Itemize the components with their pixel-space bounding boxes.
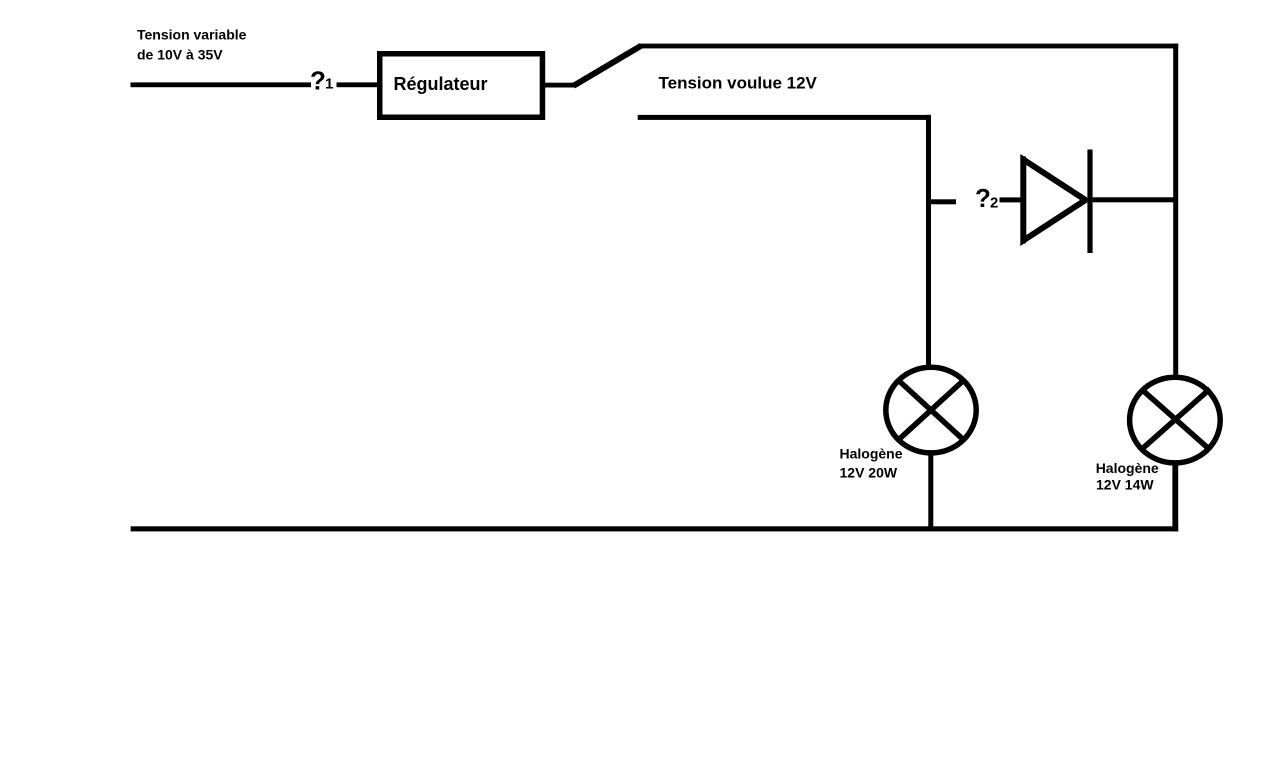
svg-text:?: ? [975, 183, 991, 213]
wire: lamp 1 to bottom rail [928, 452, 933, 531]
component ?1 (unknown component 1) [310, 66, 333, 96]
wire: diode cathode to right rail [1093, 197, 1174, 202]
wire: bottom rail [131, 526, 1179, 531]
svg-text:Régulateur: Régulateur [394, 74, 488, 94]
svg-text:12V 14W: 12V 14W [1096, 476, 1154, 492]
svg-text:Tension voulue 12V: Tension voulue 12V [659, 73, 818, 92]
wire: diagonal riser to top rail [574, 46, 642, 86]
label: Halogène 12V 20W [840, 446, 903, 481]
svg-text:Halogène: Halogène [840, 446, 903, 462]
svg-text:Tension variable: Tension variable [137, 27, 247, 43]
svg-text:de 10V à 35V: de 10V à 35V [137, 47, 223, 63]
component ?2 (unknown component 2) [975, 183, 998, 213]
wire: top rail [639, 44, 1179, 49]
regulator box U1 [377, 51, 545, 120]
wire: input wire left segment [131, 82, 312, 87]
svg-text:1: 1 [325, 76, 333, 93]
wire: branch vertical down to lamp 1 [926, 115, 931, 365]
wire: regulator output [545, 83, 575, 88]
lamp L2 (Halogène 12V 14W) [1130, 377, 1221, 463]
lamp L1 (Halogène 12V 20W) [886, 367, 976, 453]
svg-text:12V 20W: 12V 20W [840, 465, 898, 481]
svg-text:2: 2 [990, 195, 998, 212]
wire: ?2 to diode anode [1000, 197, 1022, 202]
svg-text:?: ? [310, 66, 326, 96]
diode D1 [1021, 150, 1093, 254]
svg-text:Halogène: Halogène [1096, 460, 1159, 476]
label: source note "Tension variable de 10V à 35V" [137, 27, 247, 63]
wire: ?1 to regulator [337, 82, 379, 87]
wire: stub to ?2 [931, 199, 956, 204]
wire: lamp 2 to bottom rail [1172, 462, 1178, 531]
label: Halogène 12V 14W [1096, 460, 1159, 493]
wire: 12V branch horizontal [638, 115, 931, 120]
wire: right rail upper (top rail down to lamp 2) [1173, 44, 1178, 375]
